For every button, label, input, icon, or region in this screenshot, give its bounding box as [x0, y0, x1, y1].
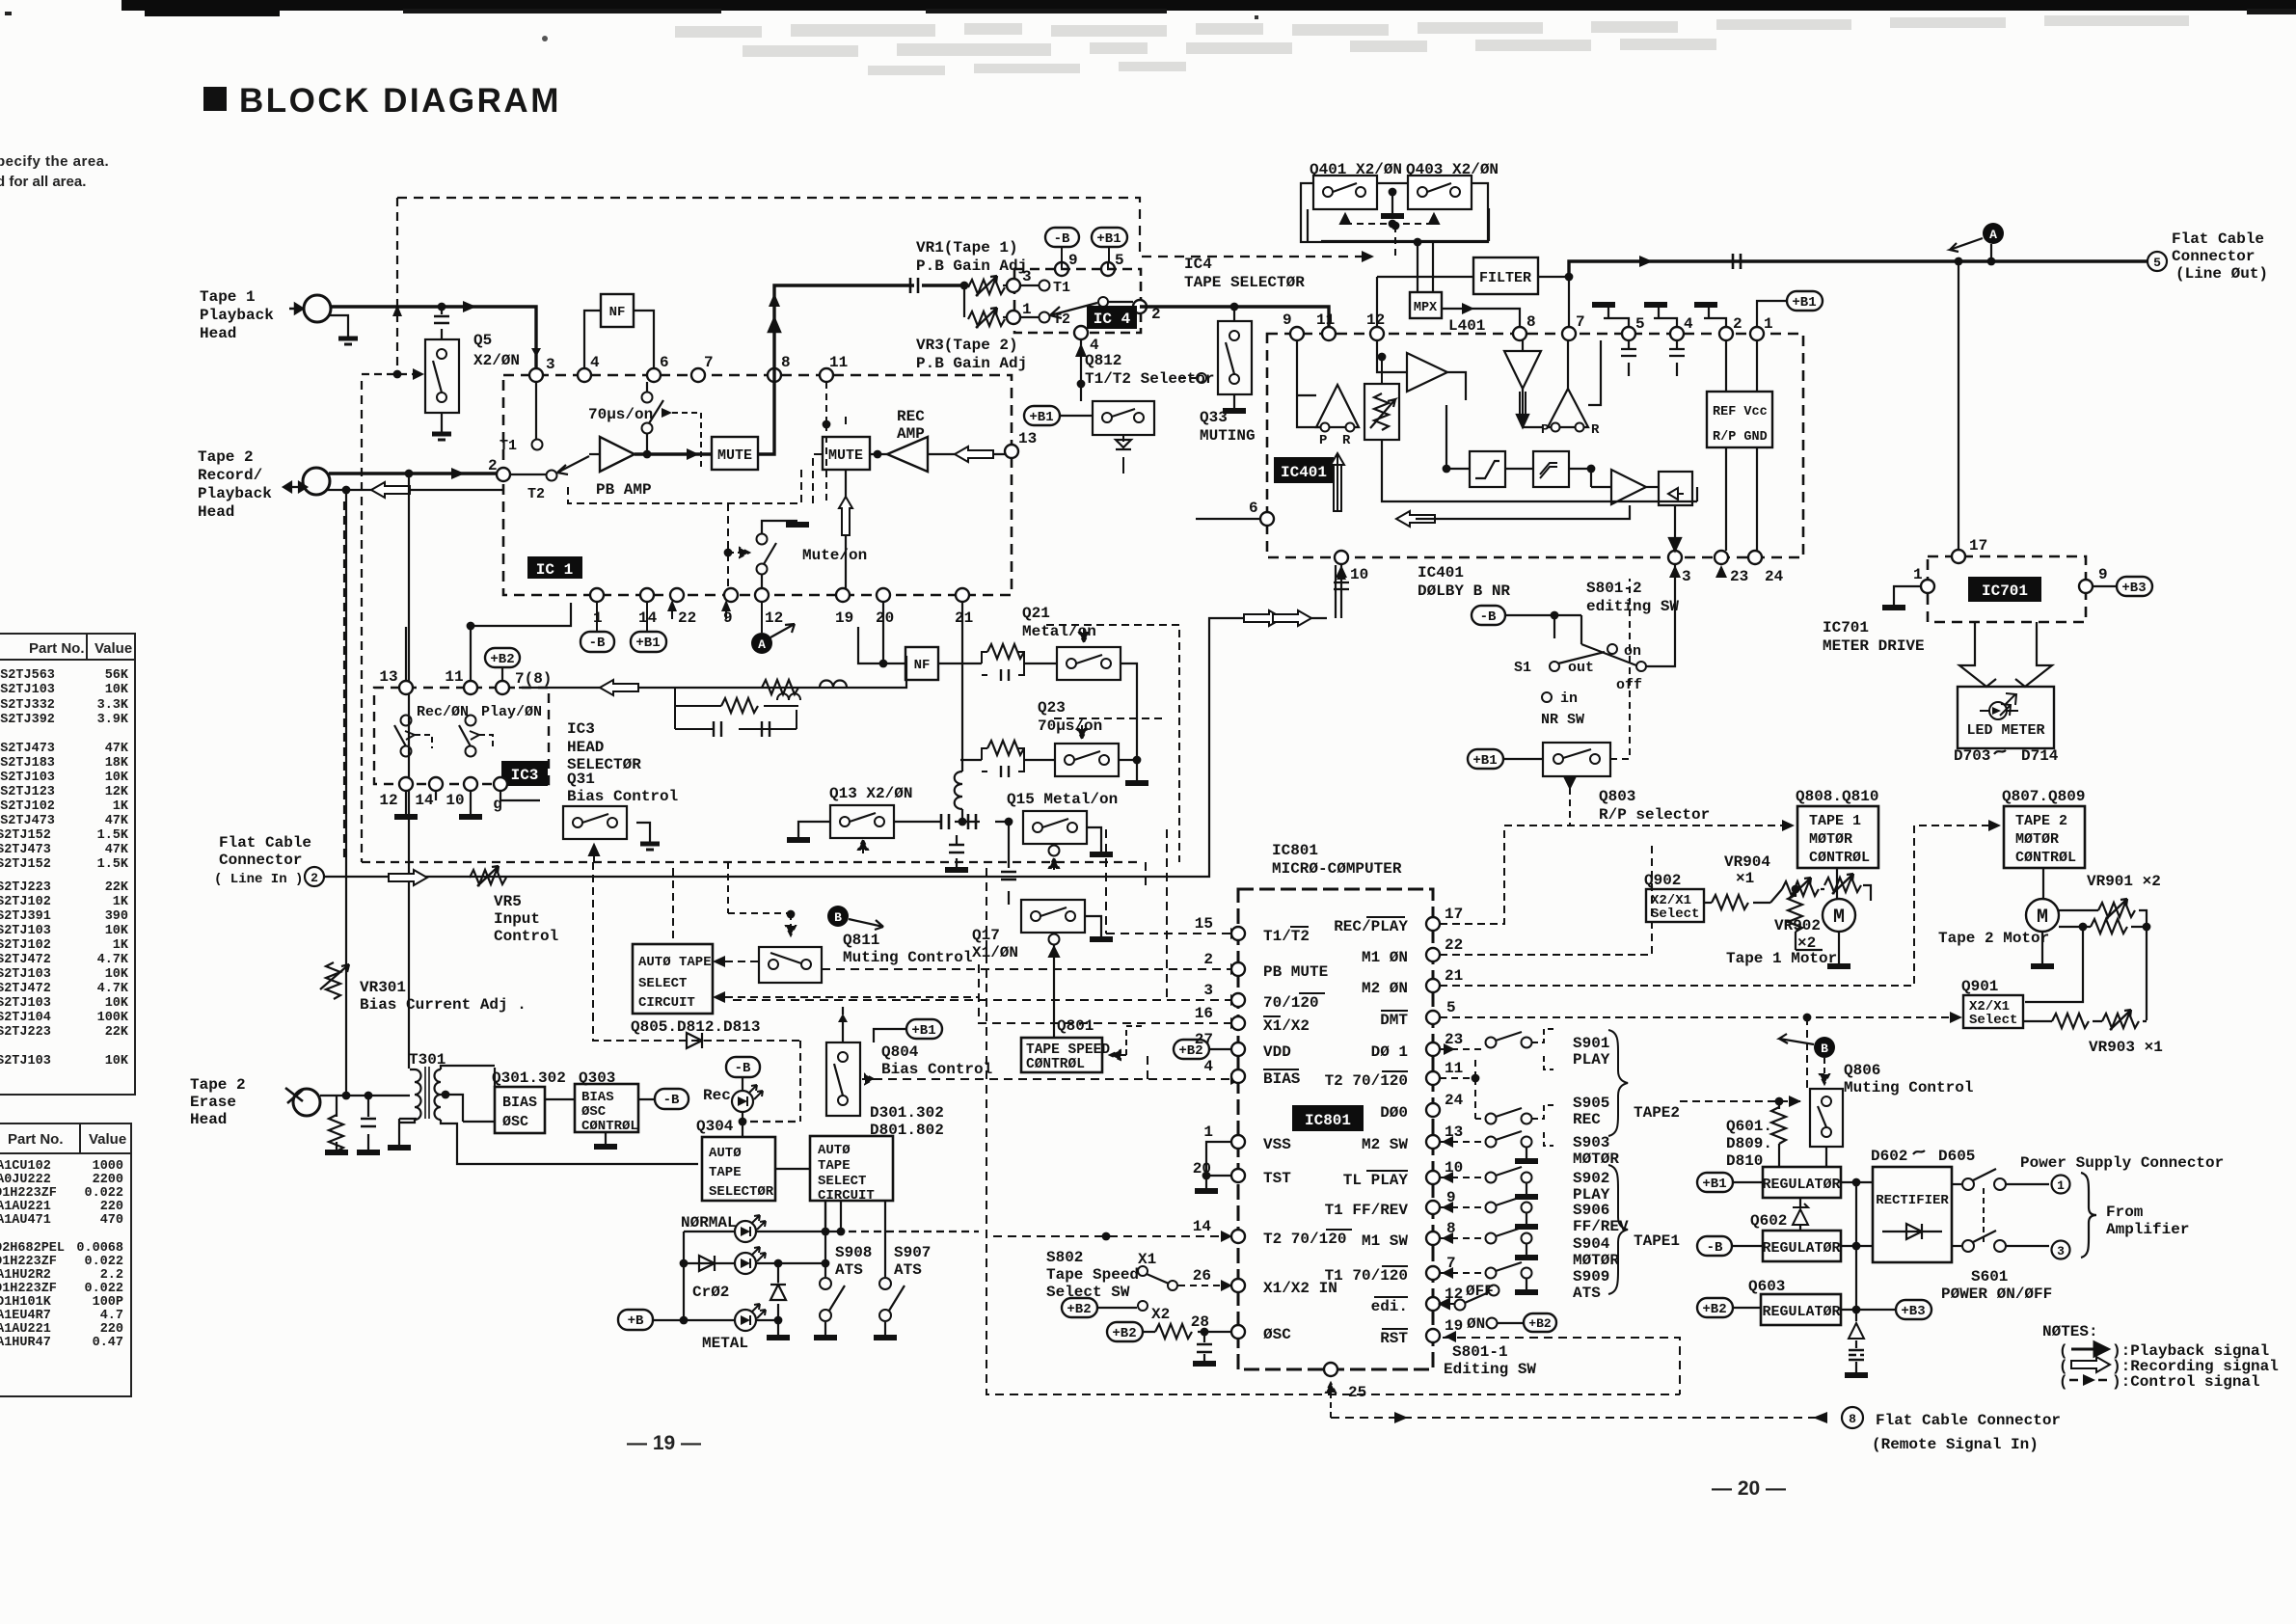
- LED METER box: [1958, 687, 2054, 748]
- svg-text:22K: 22K: [105, 1025, 129, 1040]
- transistor Q812 switch: [1093, 401, 1154, 442]
- svg-text:+B1: +B1: [1472, 753, 1497, 769]
- svg-text:47K: 47K: [105, 843, 129, 857]
- svg-text:IC801: IC801: [1305, 1112, 1351, 1129]
- left margin note (cropped): [0, 153, 109, 190]
- +B1 oval above IC4: [1092, 228, 1127, 262]
- svg-text:Q803: Q803: [1599, 788, 1635, 805]
- svg-text:26: 26: [1193, 1267, 1211, 1285]
- IC401 black tag: [1274, 457, 1334, 483]
- svg-text:Playback: Playback: [200, 307, 274, 324]
- transformer T301: [399, 1051, 698, 1164]
- svg-text:390: 390: [105, 909, 128, 924]
- svg-text:S1: S1: [1514, 660, 1531, 676]
- svg-text:56K: 56K: [105, 668, 129, 683]
- IC801 right pin names: [1325, 917, 1409, 1347]
- transistor Q5 switch: [425, 339, 459, 440]
- svg-text:1: 1: [1913, 566, 1923, 583]
- svg-text:RDS2TJ183: RDS2TJ183: [0, 756, 55, 771]
- MPX box: [1410, 292, 1485, 335]
- svg-text:S904: S904: [1573, 1235, 1610, 1253]
- control dashed: vertical at x412: [396, 198, 398, 370]
- svg-text:-B: -B: [1054, 231, 1070, 247]
- block Q902 X2/X1 Select: [1646, 889, 1704, 922]
- wires above IC3 pins: [406, 603, 571, 681]
- svg-text:VR901 ×2: VR901 ×2: [2087, 873, 2161, 890]
- svg-text:Editing SW: Editing SW: [1444, 1361, 1536, 1378]
- svg-text:13: 13: [1018, 430, 1037, 447]
- block BIAS OSC: [463, 1068, 545, 1133]
- svg-text:B: B: [834, 910, 842, 925]
- labels Q401 X2/ON and Q403 X2/ON: [1310, 161, 1499, 178]
- svg-text:1: 1: [1022, 301, 1032, 318]
- ON +B2 at RST: [1467, 1313, 1556, 1333]
- switch S907 ATS: [874, 1201, 931, 1338]
- label Flat Cable Connector (Line In): [214, 834, 311, 887]
- svg-text:3: 3: [546, 356, 555, 373]
- svg-text:5: 5: [1446, 999, 1456, 1016]
- +B1 oval to Q803: [1468, 749, 1543, 769]
- svg-text:edi.: edi.: [1371, 1298, 1408, 1315]
- svg-text:T1/T2: T1/T2: [1263, 928, 1310, 945]
- svg-text:6: 6: [660, 354, 669, 371]
- svg-text:+B1: +B1: [1792, 295, 1816, 311]
- svg-text:8: 8: [781, 354, 791, 371]
- svg-text:NF: NF: [609, 305, 626, 320]
- label IC701 METER DRIVE: [1823, 619, 1925, 655]
- svg-text:REF Vcc: REF Vcc: [1713, 405, 1768, 420]
- svg-text:23: 23: [1730, 568, 1748, 585]
- switch S909 ATS: [1440, 1262, 1609, 1302]
- svg-text:70/120: 70/120: [1263, 994, 1319, 1012]
- svg-text:13: 13: [1445, 1123, 1463, 1141]
- svg-text:7: 7: [704, 354, 714, 371]
- svg-text:VR902: VR902: [1774, 917, 1821, 934]
- svg-text:LED METER: LED METER: [1966, 722, 2044, 739]
- IC801 black tag: [1292, 1105, 1364, 1131]
- svg-text:VDD: VDD: [1263, 1043, 1291, 1061]
- svg-text:MØTØR: MØTØR: [1809, 831, 1852, 848]
- svg-text:Flat Cable: Flat Cable: [2172, 230, 2264, 248]
- svg-text:1K: 1K: [113, 938, 129, 953]
- scan artifact: faint print-through text rows: [542, 15, 2189, 75]
- svg-text:Q602: Q602: [1750, 1212, 1787, 1230]
- svg-text:Q13 X2/ØN: Q13 X2/ØN: [829, 785, 912, 802]
- svg-text:T2 70/120: T2 70/120: [1263, 1231, 1346, 1248]
- label Q811 Muting Control: [843, 932, 972, 966]
- ground at tape1 head: [329, 315, 358, 344]
- svg-text:RDS2TJ332: RDS2TJ332: [0, 698, 55, 713]
- svg-text:4: 4: [590, 354, 600, 371]
- -B oval editing: [1472, 606, 1581, 638]
- svg-text:S909: S909: [1573, 1268, 1609, 1286]
- svg-text:4.7K: 4.7K: [97, 953, 129, 967]
- svg-text:CDS2TJ473: CDS2TJ473: [0, 814, 55, 828]
- switch S905 REC: [1475, 1095, 1609, 1146]
- IC801 box: [1238, 889, 1433, 1369]
- svg-text:8: 8: [1849, 1412, 1856, 1426]
- -B oval to regulator 2: [1697, 1236, 1763, 1256]
- svg-text:TAPE: TAPE: [818, 1158, 851, 1174]
- svg-text:+B1: +B1: [1096, 231, 1121, 247]
- svg-text:T1: T1: [1053, 280, 1070, 296]
- svg-text:CØNTRØL: CØNTRØL: [581, 1119, 638, 1134]
- svg-text:Value: Value: [95, 640, 132, 657]
- svg-text:Tape 2: Tape 2: [190, 1076, 246, 1094]
- svg-text:T1: T1: [500, 438, 517, 454]
- svg-text:1.5K: 1.5K: [97, 828, 129, 843]
- IC401 bottom pins 10 3 23 24: [1335, 551, 1784, 585]
- +B2 oval OSC with resistor: [1107, 1322, 1231, 1364]
- svg-text:B: B: [1821, 1042, 1828, 1056]
- label Tape 1 Playback Head: [200, 288, 274, 342]
- VR5 pot: [470, 866, 506, 886]
- resistor Q601: [1771, 1101, 1786, 1167]
- NF box 2: [858, 602, 938, 680]
- svg-text:MØTØR: MØTØR: [2015, 831, 2059, 848]
- svg-text:DØ0: DØ0: [1380, 1104, 1408, 1122]
- svg-text:9: 9: [2098, 566, 2108, 583]
- transistor Q403 switch: [1408, 176, 1472, 209]
- svg-text:MØTØR: MØTØR: [1573, 1150, 1619, 1168]
- IC1 bottom pins: [590, 588, 973, 627]
- MUTE box 2: [823, 437, 870, 588]
- svg-text:ATS: ATS: [835, 1261, 863, 1279]
- svg-text:2.2: 2.2: [100, 1268, 123, 1283]
- svg-text:DS2TJ103: DS2TJ103: [0, 1054, 51, 1069]
- transistor Q811 switch: [759, 947, 822, 983]
- svg-text:CrØ2: CrØ2: [692, 1284, 729, 1301]
- long dashed control runs into IC801: [733, 829, 1680, 1394]
- dashed remote signal run to connector 8: [1331, 1407, 1863, 1428]
- block Q901 X2/X1 Select: [1963, 995, 2147, 1030]
- svg-text:TAPE1: TAPE1: [1634, 1232, 1680, 1250]
- label IC3 HEAD SELECTOR: [567, 720, 641, 773]
- +B2 oval X2: [1062, 1298, 1148, 1317]
- block TAPE 2 MOTOR CONTROL: [2004, 806, 2085, 868]
- transistor Q15 switch: [1023, 811, 1113, 870]
- svg-text:S902: S902: [1573, 1170, 1609, 1187]
- svg-text:-B: -B: [1707, 1240, 1723, 1256]
- svg-text:9: 9: [723, 609, 733, 627]
- svg-text:3: 3: [2057, 1244, 2065, 1259]
- svg-text:X1/X2: X1/X2: [1263, 1017, 1310, 1035]
- svg-text:TAPE: TAPE: [709, 1165, 742, 1180]
- +B3 oval at IC701: [2093, 577, 2152, 596]
- wire tape2 playback return line: [328, 482, 504, 498]
- svg-text:A: A: [758, 637, 766, 652]
- VR904 x1 pot: [1704, 853, 1871, 909]
- svg-text:220: 220: [100, 1322, 123, 1337]
- svg-text:2: 2: [1733, 315, 1742, 333]
- svg-text:Input: Input: [494, 910, 540, 928]
- svg-text:A: A: [1989, 228, 1997, 242]
- svg-text:DS2TJ103: DS2TJ103: [0, 924, 51, 938]
- wire vertical to erase head: [345, 490, 347, 1096]
- recording open arrow into IC401 left: [1396, 505, 1630, 527]
- svg-text:11: 11: [829, 354, 848, 371]
- svg-text:EA1AU221: EA1AU221: [0, 1322, 51, 1337]
- svg-text:Q23: Q23: [1038, 699, 1066, 717]
- 70us/on switch: [588, 382, 701, 471]
- node B circle at Q806: [1779, 1034, 1835, 1084]
- label Q23 70us/on: [1038, 699, 1102, 735]
- node A circle: [751, 602, 795, 654]
- svg-text:(Line Øut): (Line Øut): [2175, 265, 2268, 283]
- svg-text:Select: Select: [1651, 907, 1699, 922]
- label Q13 X2/ON: [829, 785, 912, 802]
- svg-text:M2 SW: M2 SW: [1362, 1136, 1408, 1153]
- svg-text:DØLBY B NR: DØLBY B NR: [1418, 582, 1510, 600]
- outer dashed region left edge: [344, 381, 1140, 862]
- dashed diode run to Q304: [593, 862, 800, 1122]
- label Q301.302: [492, 1069, 566, 1087]
- svg-text:IC4: IC4: [1184, 256, 1212, 273]
- svg-text:Q15 Metal/on: Q15 Metal/on: [1007, 791, 1118, 808]
- gain pot box: [1364, 353, 1399, 440]
- svg-text:D602: D602: [1871, 1148, 1907, 1165]
- svg-text:TAPE SPEED: TAPE SPEED: [1026, 1042, 1110, 1058]
- pin4 wire down to Q812: [1075, 339, 1087, 401]
- svg-text:DS2TJ152: DS2TJ152: [0, 828, 51, 843]
- top dashed into Q401 region: [397, 198, 1399, 262]
- svg-text:KD1H223ZF: KD1H223ZF: [0, 1186, 57, 1201]
- svg-text:1.5K: 1.5K: [97, 857, 129, 872]
- node B circle: [728, 862, 883, 935]
- connector circle 5 (line out): [2147, 252, 2167, 271]
- switch S906 FF/REV: [1440, 1197, 1629, 1235]
- svg-text:14: 14: [415, 792, 434, 809]
- svg-text:13: 13: [379, 668, 397, 686]
- svg-text:X2/ØN: X2/ØN: [473, 352, 520, 369]
- label Q31 Bias Control: [567, 771, 678, 805]
- svg-text:+B2: +B2: [1178, 1043, 1202, 1059]
- svg-text:S905: S905: [1573, 1095, 1609, 1112]
- block AUTO TAPE SELECT CIRCUIT (upper): [631, 944, 760, 1036]
- FILTER box: [1377, 257, 1573, 327]
- svg-text:P: P: [1541, 422, 1549, 438]
- NOTES legend: [2042, 1323, 2279, 1391]
- title: BLOCK DIAGRAM: [203, 82, 561, 120]
- svg-text:6: 6: [1249, 500, 1258, 517]
- svg-text:Part No.: Part No.: [8, 1131, 64, 1148]
- svg-text:REGULATØR: REGULATØR: [1762, 1240, 1840, 1257]
- svg-text:From: From: [2106, 1204, 2144, 1221]
- svg-text:DS2TJ103: DS2TJ103: [0, 996, 51, 1011]
- -B oval after bias control: [655, 1089, 689, 1109]
- svg-text:24: 24: [1765, 568, 1784, 585]
- svg-text:12: 12: [379, 792, 397, 809]
- svg-text:DS2TJ223: DS2TJ223: [0, 880, 51, 895]
- svg-text:470: 470: [100, 1213, 123, 1228]
- svg-text:S601: S601: [1971, 1268, 2008, 1286]
- svg-text:7(8): 7(8): [515, 670, 552, 688]
- svg-text:AUTØ: AUTØ: [709, 1146, 742, 1161]
- wire output down to IC701: [1958, 261, 1959, 550]
- svg-text:PB AMP: PB AMP: [596, 481, 652, 499]
- svg-text:R/P GND: R/P GND: [1713, 430, 1768, 445]
- svg-text:PLAY: PLAY: [1573, 1051, 1610, 1069]
- IC3 top pins 13 11 7(8): [379, 668, 552, 694]
- svg-text:METAL: METAL: [702, 1335, 748, 1352]
- svg-text:Q31: Q31: [567, 771, 595, 788]
- wires Q401 box to MPX: [1308, 208, 1489, 292]
- diode to ground column: [767, 1263, 790, 1338]
- svg-text:REGULATØR: REGULATØR: [1762, 1177, 1840, 1193]
- svg-text:10K: 10K: [105, 996, 129, 1011]
- svg-text:T2 70/120: T2 70/120: [1325, 1072, 1408, 1090]
- svg-text:D714: D714: [2021, 747, 2059, 765]
- label S801-2 editing SW: [1586, 580, 1679, 615]
- dashed into pin14 T2 70/120: [993, 1231, 1232, 1242]
- tape 2 erase head: [190, 1076, 246, 1128]
- IC701 dashed box: [1928, 556, 2086, 622]
- svg-text:BIAS: BIAS: [1263, 1070, 1301, 1088]
- switch S902 PLAY: [1440, 1167, 1610, 1204]
- svg-text:— 20 —: — 20 —: [1712, 1477, 1786, 1500]
- tape 1 playback head: [289, 295, 331, 322]
- svg-text:DØ 1: DØ 1: [1371, 1043, 1408, 1061]
- svg-text:SELECTØR: SELECTØR: [709, 1184, 774, 1200]
- svg-text:MØTØR: MØTØR: [1573, 1252, 1619, 1269]
- label IC401 DOLBY B NR: [1418, 564, 1510, 600]
- svg-text:11: 11: [1445, 1060, 1463, 1077]
- svg-text:12K: 12K: [105, 785, 129, 799]
- svg-text:Value: Value: [89, 1131, 126, 1148]
- svg-text:1K: 1K: [113, 895, 129, 909]
- op-amp P/R 2: [1523, 340, 1601, 438]
- +B2 oval to regulator 3: [1697, 1298, 1761, 1317]
- svg-text:Q902: Q902: [1644, 872, 1681, 889]
- svg-text:2: 2: [488, 457, 498, 474]
- svg-text:Head: Head: [190, 1111, 227, 1128]
- coil under pin21: [955, 602, 962, 822]
- svg-text:9: 9: [1068, 252, 1078, 269]
- svg-text:TAPE SELECTØR: TAPE SELECTØR: [1184, 274, 1305, 291]
- label VR1 (Tape 1) PB Gain Adj: [916, 239, 1027, 275]
- MUTE box 1: [712, 437, 758, 470]
- power switch S601 top: [1952, 1169, 2070, 1194]
- svg-text:CD1H101K: CD1H101K: [0, 1295, 52, 1310]
- svg-text:DS2TJ104: DS2TJ104: [0, 1011, 51, 1025]
- svg-text:1K: 1K: [113, 799, 129, 814]
- svg-text:15: 15: [1195, 915, 1213, 933]
- label IC4 TAPE SELECTOR: [1184, 256, 1305, 291]
- erase head wiring: [320, 1092, 417, 1152]
- svg-text:+B1: +B1: [1029, 410, 1053, 425]
- wire rec amp input from pin13: [928, 430, 1037, 462]
- svg-text:BLOCK DIAGRAM: BLOCK DIAGRAM: [239, 82, 561, 120]
- connector circle 2 (line in): [305, 867, 324, 886]
- svg-text:DS2TJ102: DS2TJ102: [0, 895, 51, 909]
- svg-text:22K: 22K: [105, 880, 129, 895]
- svg-text:NF: NF: [914, 658, 931, 673]
- svg-text:d for all area.: d for all area.: [0, 174, 86, 190]
- label Q15 Metal/on: [1007, 791, 1118, 808]
- svg-text:REC/PLAY: REC/PLAY: [1334, 918, 1408, 935]
- svg-text:12: 12: [1366, 311, 1385, 329]
- svg-text:EA1AU221: EA1AU221: [0, 1200, 51, 1214]
- svg-text:0.022: 0.022: [84, 1282, 123, 1296]
- svg-text:ATS: ATS: [1573, 1285, 1601, 1302]
- svg-text:0.47: 0.47: [93, 1336, 123, 1350]
- svg-text:ØSC: ØSC: [502, 1114, 528, 1130]
- wire pin8 top: [769, 318, 780, 368]
- svg-text:P.B Gain Adj: P.B Gain Adj: [916, 355, 1027, 372]
- switch Rec/ON: [394, 704, 469, 757]
- svg-text:Control: Control: [494, 928, 558, 945]
- IC3 dashed box: [374, 688, 549, 784]
- svg-text:Tape 2: Tape 2: [198, 448, 254, 466]
- svg-text:10K: 10K: [105, 771, 129, 785]
- brace From Amplifier: [2081, 1173, 2189, 1258]
- svg-text:TST: TST: [1263, 1170, 1291, 1187]
- svg-text:PØWER ØN/ØFF: PØWER ØN/ØFF: [1941, 1286, 2052, 1303]
- svg-text:+B: +B: [628, 1313, 644, 1329]
- recording line up from MUTE1 to VR pots: [758, 278, 968, 454]
- label VR5 Input Control: [494, 893, 558, 945]
- svg-text:in: in: [1560, 690, 1578, 707]
- svg-text:Mute/on: Mute/on: [802, 547, 867, 564]
- svg-text:17: 17: [1445, 906, 1463, 923]
- transistor Q33 switch: [1176, 307, 1252, 411]
- svg-text:DS2TJ103: DS2TJ103: [0, 967, 51, 982]
- +B1 oval Q812: [1024, 406, 1093, 425]
- svg-text:Tape 1 Motor: Tape 1 Motor: [1726, 950, 1837, 967]
- wire vertical to T301: [408, 474, 410, 1069]
- IC4 pins 9 5: [1055, 252, 1124, 276]
- open arrow into pin10 line: [1273, 610, 1311, 626]
- svg-text:T1 FF/REV: T1 FF/REV: [1325, 1202, 1409, 1219]
- IC801 bottom pin 25: [1324, 1363, 1366, 1418]
- svg-text:10K: 10K: [105, 967, 129, 982]
- svg-text:Erase: Erase: [190, 1094, 236, 1111]
- svg-text:IC401: IC401: [1281, 464, 1327, 481]
- REC AMP: [870, 408, 928, 472]
- svg-text:Tape Speed: Tape Speed: [1046, 1266, 1139, 1284]
- svg-text:70μs/on: 70μs/on: [1038, 717, 1102, 735]
- svg-text:ØSC: ØSC: [1263, 1326, 1291, 1343]
- svg-text:Q806: Q806: [1844, 1062, 1880, 1079]
- svg-text:1: 1: [2057, 1178, 2065, 1193]
- svg-text:):Control signal: ):Control signal: [2112, 1373, 2260, 1391]
- IC4 box: [1014, 269, 1141, 333]
- svg-text:S901: S901: [1573, 1035, 1609, 1052]
- svg-text:RDS2TJ563: RDS2TJ563: [0, 668, 55, 683]
- svg-text:100K: 100K: [97, 1011, 129, 1025]
- wire pb amp to mute: [635, 448, 712, 460]
- page number 20: [1712, 1477, 1786, 1500]
- wire tape2 record line to IC1 pin2: [329, 468, 498, 479]
- svg-text:+B2: +B2: [490, 652, 514, 667]
- svg-text:10K: 10K: [105, 1054, 129, 1069]
- svg-text:Q801: Q801: [1057, 1017, 1094, 1035]
- S802 tape speed select switch: [1046, 1249, 1170, 1323]
- svg-text:NØRMAL: NØRMAL: [681, 1214, 737, 1232]
- transistor Q804 switch: [826, 1007, 874, 1116]
- svg-text:3.9K: 3.9K: [97, 713, 129, 727]
- svg-text:8: 8: [1526, 313, 1536, 331]
- block BIAS OSC CONTROL: [545, 1084, 655, 1147]
- svg-text:3.3K: 3.3K: [97, 698, 129, 713]
- label D301.302 D801.802: [870, 1104, 944, 1139]
- label Q801 TAPE SPEED CONTROL: [1021, 1017, 1146, 1072]
- label Q808,Q810: [1796, 788, 1878, 805]
- REF Vcc R/P GND box: [1707, 340, 1772, 551]
- capacitor at Q5 input: [434, 307, 449, 338]
- svg-text:18K: 18K: [105, 756, 129, 771]
- wire IC3 row to right (recording path): [519, 656, 906, 695]
